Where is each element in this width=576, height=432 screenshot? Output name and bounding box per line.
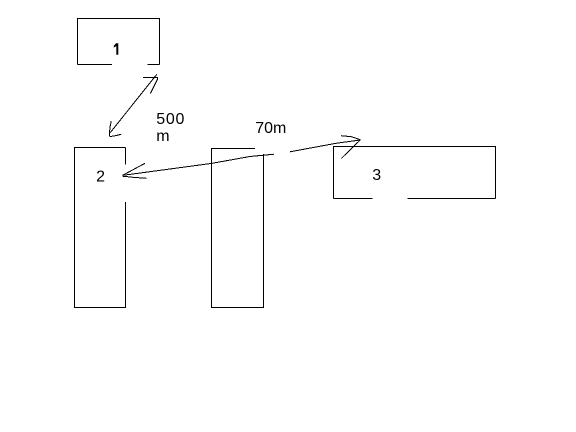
arrow between 2 and 3: right arrowhead upper barb [341, 136, 360, 140]
building 2 rectangle [75, 148, 126, 308]
arrow between 1 and 2: bottom arrowhead curl [110, 134, 122, 136]
svg-text:70m: 70m [255, 120, 286, 137]
svg-text:3: 3 [372, 167, 381, 184]
building 3 rectangle [334, 147, 496, 199]
svg-text:500: 500 [156, 111, 185, 128]
middle building rectangle [212, 149, 264, 308]
arrow between 2 and 3: right arrowhead lower barb [341, 140, 360, 159]
arrow between 2 and 3: left arrowhead lower barb [123, 176, 147, 178]
arrow between 2 and 3: left arrowhead upper barb [122, 163, 145, 175]
svg-text:m: m [156, 128, 169, 145]
arrow between 1 and 2: top arrowhead [143, 77, 158, 93]
arrow between 2 and 3: shaft right segment [290, 140, 360, 152]
arrow between 1 and 2: shaft [110, 74, 157, 132]
building 1 rectangle [78, 19, 160, 65]
arrow between 1 and 2: bottom arrowhead barb [110, 121, 112, 137]
svg-text:2: 2 [96, 168, 105, 185]
label 1 [114, 43, 119, 55]
arrow between 2 and 3: shaft left segment [122, 154, 274, 175]
